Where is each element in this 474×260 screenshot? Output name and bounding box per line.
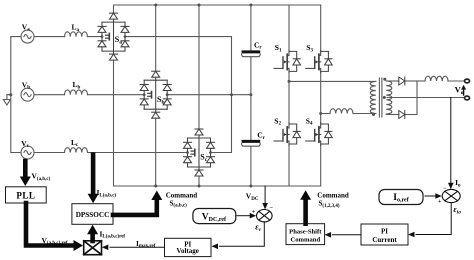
left source trunk — [11, 37, 21, 153]
svg-text:Command: Command — [317, 191, 349, 199]
svg-text:Vc: Vc — [21, 139, 29, 149]
svg-text:+: + — [438, 199, 442, 205]
resonant inductor Lr — [330, 109, 353, 114]
output filter wire — [417, 80, 425, 82]
svg-text:S(1,2,3,4): S(1,2,3,4) — [319, 200, 340, 209]
rectifier diode D1 — [399, 77, 405, 85]
PI Voltage block — [165, 238, 212, 256]
svg-text:IL(a,b,c)ref: IL(a,b,c)ref — [100, 229, 126, 239]
wire summer ev to PI Voltage — [220, 222, 265, 246]
svg-text:V(a,b,c): V(a,b,c) — [32, 172, 51, 182]
output inductor Lo — [425, 76, 448, 81]
svg-text:Cr: Cr — [254, 40, 262, 50]
PI Current block — [361, 224, 408, 245]
svg-text:PI: PI — [381, 227, 388, 235]
VDC sense wire — [264, 186, 266, 203]
wire leg2 midpoint to resonant inductor — [321, 113, 330, 115]
multiplier X — [84, 241, 102, 255]
PLL block — [6, 187, 47, 203]
arrow PI Current to Phase-Shift Command — [333, 234, 362, 236]
arrow Io,ref to summer eio — [425, 195, 436, 197]
rectifier diode D2 — [399, 111, 405, 119]
transformer polarity dots — [372, 113, 375, 116]
summer ev — [257, 210, 273, 222]
transformer primary winding — [370, 81, 376, 113]
phase b wire — [34, 94, 65, 96]
svg-text:IL(a,b,c): IL(a,b,c) — [97, 188, 117, 198]
phase a wire — [34, 36, 65, 38]
thick command arrow S(1,2,3,4) — [303, 200, 308, 224]
svg-text:Vo: Vo — [455, 84, 464, 96]
H-bridge leg 1 — [288, 5, 290, 50]
MOSFET S4 — [306, 123, 333, 145]
svg-text:Lc: Lc — [71, 138, 79, 148]
thick arrow multiplier to DPSSOCC — [90, 233, 95, 241]
svg-text:S(a,b,c): S(a,b,c) — [170, 199, 188, 208]
ground — [3, 95, 10, 105]
svg-text:+: + — [252, 209, 256, 215]
svg-text:Voltage: Voltage — [177, 247, 199, 255]
wire summer eio to PI Current — [416, 203, 451, 235]
inductor Lb — [65, 90, 88, 95]
svg-text:La: La — [72, 23, 80, 33]
secondary bottom wire to rectifier diode D2 — [386, 114, 399, 116]
transformer core — [378, 78, 380, 117]
wire leg1 midpoint to transformer primary top — [289, 80, 376, 82]
Io,ref block — [379, 190, 423, 205]
output terminal top — [465, 79, 470, 83]
svg-text:−: − — [270, 205, 274, 211]
svg-text:Va: Va — [22, 22, 30, 32]
output terminal bottom — [465, 96, 470, 100]
svg-text:Sb: Sb — [157, 95, 165, 106]
svg-text:Sa: Sa — [115, 35, 122, 46]
inductor La — [65, 32, 88, 37]
svg-text:Command: Command — [290, 236, 320, 243]
phase c wire — [34, 152, 65, 154]
svg-text:S4: S4 — [306, 116, 313, 126]
svg-text:Phase-Shift: Phase-Shift — [289, 228, 322, 235]
Phase-Shift Command block — [286, 224, 325, 245]
arrow VDC,ref to summer — [237, 215, 250, 217]
svg-text:Sc: Sc — [200, 153, 207, 164]
node: trunk/Vb junction — [9, 93, 12, 96]
svg-text:−: − — [443, 186, 447, 192]
svg-text:VDC: VDC — [246, 192, 259, 202]
bottom DC bus — [114, 158, 321, 186]
AC source Vb — [21, 88, 34, 101]
resonant capacitor Cr top — [242, 52, 261, 57]
svg-text:Command: Command — [166, 191, 198, 199]
rectifier cathode bus — [416, 81, 418, 115]
svg-text:Imax,ref: Imax,ref — [136, 239, 156, 249]
cell S_b vertical stubs — [155, 5, 157, 71]
svg-text:S3: S3 — [306, 43, 313, 53]
bidirectional switch cell Sa — [98, 13, 129, 60]
svg-text:DPSSOCC: DPSSOCC — [76, 211, 110, 219]
svg-text:Io: Io — [455, 178, 461, 188]
svg-text:εv: εv — [255, 222, 261, 233]
resonant capacitor Cr bottom — [242, 141, 261, 146]
output voltage arrow — [463, 88, 465, 96]
thick command wire DPSSOCC to matrix — [113, 200, 157, 215]
thick wire PLL to multiplier — [26, 203, 74, 246]
center tap wire to output — [387, 97, 465, 99]
secondary top wire to rectifier diode D1 — [386, 80, 399, 82]
inductor Lc — [65, 148, 88, 153]
svg-text:S2: S2 — [274, 116, 281, 126]
svg-text:PLL: PLL — [16, 191, 35, 201]
top DC bus — [114, 5, 321, 13]
svg-text:S1: S1 — [275, 43, 282, 53]
bidirectional switch cell Sc — [184, 129, 215, 176]
MOSFET S1 — [274, 50, 301, 72]
arrow PI Voltage to multiplier — [110, 246, 165, 248]
thick measurement arrow IL(a,b,c) — [91, 155, 96, 195]
summer eio — [442, 189, 460, 202]
svg-text:εio: εio — [453, 205, 461, 216]
MOSFET S3 — [306, 50, 333, 72]
AC source Va — [21, 30, 34, 43]
common output node wiring — [125, 37, 232, 153]
resonant capacitor bus — [250, 5, 252, 51]
VDC,ref block — [193, 209, 236, 224]
svg-text:Cr: Cr — [257, 131, 265, 141]
svg-text:Vb: Vb — [22, 80, 30, 90]
bidirectional switch cell Sb — [140, 71, 171, 118]
AC source Vc — [21, 146, 34, 159]
cell S_c vertical stubs — [198, 5, 200, 129]
DPSSOCC block — [72, 204, 113, 225]
cell S_a vertical stubs — [113, 60, 115, 158]
transformer secondary winding — [386, 81, 392, 114]
thick measurement arrow V(a,b,c) — [23, 161, 28, 178]
svg-text:V(a,b,c),ref: V(a,b,c),ref — [42, 236, 68, 246]
svg-text:Current: Current — [372, 236, 397, 244]
H-bridge leg 2 — [320, 5, 322, 50]
Io sense wire — [450, 98, 452, 183]
MOSFET S2 — [274, 123, 301, 145]
svg-text:Lb: Lb — [73, 80, 81, 90]
